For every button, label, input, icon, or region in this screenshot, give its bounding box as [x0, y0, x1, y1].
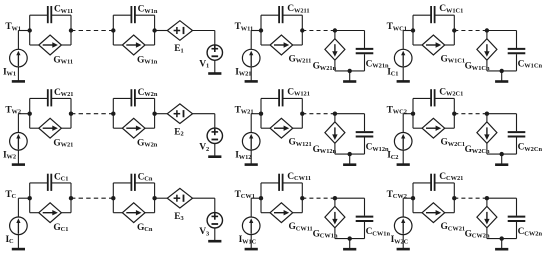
node: [28, 112, 32, 116]
controlled source GW1n: [122, 35, 145, 55]
label CW2Cn: [518, 143, 543, 153]
ground: [208, 144, 221, 157]
label GW11: [53, 55, 73, 65]
node TWC2 label: [387, 105, 407, 115]
controlled source GCW11: [270, 203, 293, 223]
label GCW11: [289, 222, 313, 232]
current source IW1: [10, 49, 28, 67]
node: [152, 28, 156, 32]
label IW12: [235, 151, 251, 161]
capacitor CC1: [48, 174, 52, 191]
wire: [113, 183, 154, 198]
wire: [302, 30, 335, 32]
wire: [334, 143, 336, 154]
wire: [261, 183, 302, 198]
label GW21: [53, 139, 73, 149]
controlled source GW11: [39, 35, 62, 55]
wire: [487, 31, 517, 49]
capacitor CCW2n: [508, 217, 526, 221]
node: [485, 196, 489, 200]
label CW12n: [366, 143, 389, 153]
node: [411, 28, 415, 32]
node: [411, 196, 415, 200]
wire: [403, 113, 413, 115]
capacitor CW121: [279, 89, 283, 106]
capacitor CW1n: [131, 6, 135, 23]
wire: [516, 222, 518, 239]
label CW2C1: [439, 87, 463, 97]
label CW121: [287, 87, 310, 97]
controlled source GCW21: [422, 203, 445, 223]
ground: [495, 154, 508, 165]
wire: [334, 228, 336, 239]
node: [411, 112, 415, 116]
controlled source GW1C1: [422, 35, 445, 55]
wire: [486, 31, 488, 39]
wire: [251, 113, 261, 115]
label GW211: [289, 54, 312, 64]
node: [300, 112, 304, 116]
wire: [413, 31, 454, 46]
wire: [113, 114, 154, 129]
label V3: [199, 227, 209, 237]
wire: [486, 114, 488, 122]
label CCW11: [287, 172, 311, 182]
wire: [30, 114, 71, 129]
wire: [261, 198, 302, 213]
ground: [343, 239, 356, 250]
label GW2C1: [441, 138, 466, 148]
wire: [334, 31, 336, 39]
label IC: [6, 235, 15, 245]
node: [111, 28, 115, 32]
node: [485, 112, 489, 116]
controlled source GW21: [39, 118, 62, 138]
label CW21: [54, 88, 73, 98]
node: [452, 112, 456, 116]
capacitor CCW11: [279, 174, 283, 191]
label GW121: [289, 138, 312, 148]
node: [28, 28, 32, 32]
ground: [12, 235, 25, 250]
controlled source GW1Cn: [477, 39, 497, 60]
node: [69, 28, 73, 32]
ground: [208, 60, 221, 73]
wire: [17, 198, 19, 217]
label IW1: [3, 67, 16, 77]
node: [348, 152, 352, 156]
wire: [18, 197, 29, 199]
wire: [302, 197, 335, 199]
wire: [516, 137, 518, 154]
wire: [17, 31, 19, 50]
wire: [402, 114, 404, 133]
label IW2: [3, 151, 16, 161]
controlled source GCW1n: [325, 206, 345, 227]
node: [500, 69, 504, 73]
controlled source GW12n: [325, 122, 345, 143]
node: [111, 112, 115, 116]
current source IW2C: [394, 217, 412, 235]
label GW2Cn: [465, 145, 490, 155]
voltage source V2: [207, 128, 222, 143]
wire: [334, 198, 336, 206]
wire: [71, 113, 113, 115]
label CW1Cn: [518, 60, 543, 70]
node: [500, 152, 504, 156]
label IC2: [387, 151, 398, 161]
label GCW1n: [313, 229, 338, 239]
node: [333, 28, 337, 32]
wire: [516, 54, 518, 71]
wire: [334, 60, 336, 71]
wire: [364, 137, 366, 154]
current source IW21: [242, 49, 260, 67]
wire: [71, 197, 113, 199]
controlled source GCW2n: [477, 206, 497, 227]
label GW1Cn: [465, 62, 490, 72]
wire: [335, 153, 365, 155]
wire: [30, 15, 71, 30]
ground: [245, 67, 258, 82]
wire: [413, 114, 454, 129]
wire: [413, 183, 454, 198]
wire: [261, 15, 302, 30]
label E1: [174, 44, 183, 54]
node: [452, 196, 456, 200]
label E2: [174, 127, 183, 137]
label V2: [199, 143, 209, 153]
label GW21n: [313, 62, 337, 72]
wire: [402, 31, 404, 50]
wire: [413, 98, 454, 113]
wire: [403, 30, 413, 32]
wire: [413, 15, 454, 30]
current source IW12: [242, 133, 260, 151]
label IC1: [387, 68, 398, 78]
node TW2 label: [5, 105, 21, 115]
label E3: [174, 212, 183, 222]
node: [69, 196, 73, 200]
wire: [193, 113, 215, 115]
wire: [193, 197, 215, 199]
label CW21n: [366, 60, 389, 70]
wire: [214, 31, 216, 45]
wire: [250, 31, 252, 50]
wire: [18, 113, 29, 115]
capacitor CCW21: [431, 174, 435, 191]
node TC label: [5, 190, 16, 200]
node: [111, 196, 115, 200]
controlled voltage source E1: [167, 21, 192, 41]
wire: [486, 143, 488, 154]
wire: [18, 30, 29, 32]
label CCW2n: [518, 227, 543, 237]
wire: [261, 31, 302, 46]
capacitor CW11: [48, 6, 52, 23]
controlled source GW2Cn: [477, 122, 497, 143]
capacitor CW1C1: [431, 6, 435, 23]
wire: [113, 198, 154, 213]
node TWC1 label: [387, 22, 407, 32]
capacitor CCn: [131, 174, 135, 191]
wire: [487, 114, 517, 132]
capacitor CW21: [48, 89, 52, 106]
wire: [155, 197, 168, 199]
ground: [12, 150, 25, 165]
capacitor CW21n: [356, 49, 374, 53]
node: [259, 196, 263, 200]
ground: [245, 150, 258, 165]
ground: [397, 67, 410, 82]
label CCW1n: [366, 227, 391, 237]
controlled source GW211: [270, 35, 293, 55]
wire: [30, 183, 71, 198]
wire: [250, 114, 252, 133]
label CW1n: [138, 5, 158, 15]
wire: [335, 198, 365, 216]
label CW1C1: [439, 4, 463, 14]
label GW1C1: [441, 54, 466, 64]
wire: [402, 198, 404, 217]
node: [348, 69, 352, 73]
wire: [113, 15, 154, 30]
wire: [250, 198, 252, 217]
wire: [403, 197, 413, 199]
label CCW21: [439, 172, 463, 182]
wire: [302, 113, 335, 115]
wire: [454, 30, 487, 32]
controlled voltage source E3: [167, 188, 192, 208]
ground: [343, 154, 356, 165]
node: [152, 196, 156, 200]
wire: [486, 198, 488, 206]
wire: [364, 54, 366, 71]
label IW2C: [391, 235, 409, 245]
wire: [155, 30, 168, 32]
wire: [193, 30, 215, 32]
node: [333, 196, 337, 200]
current source IW1C: [242, 217, 260, 235]
wire: [487, 70, 517, 72]
wire: [454, 113, 487, 115]
ground: [495, 239, 508, 250]
wire: [413, 198, 454, 213]
controlled source GC1: [39, 203, 62, 223]
wire: [335, 114, 365, 132]
wire: [335, 238, 365, 240]
node TCW1 label: [235, 190, 255, 200]
controlled source GW21n: [325, 39, 345, 60]
wire: [155, 113, 168, 115]
label CW11: [54, 5, 73, 15]
wire: [261, 98, 302, 113]
label IW21: [235, 68, 251, 78]
ground: [343, 71, 356, 82]
label GW12n: [313, 145, 337, 155]
capacitor CCW1n: [356, 217, 374, 221]
voltage source V1: [207, 45, 222, 60]
label GW2n: [137, 139, 158, 149]
capacitor CW211: [279, 6, 283, 23]
wire: [487, 198, 517, 216]
node: [152, 112, 156, 116]
label CC1: [54, 172, 68, 182]
label GC1: [53, 223, 68, 233]
node: [28, 196, 32, 200]
wire: [30, 31, 71, 46]
ground: [12, 67, 25, 82]
current source IC: [10, 217, 28, 235]
wire: [335, 31, 365, 49]
ground: [397, 235, 410, 250]
capacitor CW1Cn: [508, 49, 526, 53]
controlled voltage source E2: [167, 104, 192, 124]
node: [452, 28, 456, 32]
capacitor CW2n: [131, 89, 135, 106]
node: [348, 236, 352, 240]
wire: [334, 114, 336, 122]
current source IC2: [394, 133, 412, 151]
wire: [113, 31, 154, 46]
wire: [486, 228, 488, 239]
wire: [113, 98, 154, 113]
wire: [251, 30, 261, 32]
capacitor CW2Cn: [508, 132, 526, 136]
node TW11 label: [235, 22, 254, 32]
wire: [30, 98, 71, 113]
node: [500, 236, 504, 240]
current source IC1: [394, 49, 412, 67]
controlled source GCn: [122, 203, 145, 223]
label GCn: [137, 223, 153, 233]
label CW211: [287, 4, 309, 14]
label CW2n: [138, 88, 158, 98]
controlled source GW121: [270, 118, 293, 138]
controlled source GW2n: [122, 118, 145, 138]
label CCn: [138, 172, 153, 182]
ground: [397, 150, 410, 165]
node: [259, 112, 263, 116]
node TW21 label: [235, 105, 254, 115]
wire: [251, 197, 261, 199]
current source IW2: [10, 133, 28, 151]
ground: [245, 235, 258, 250]
node TCW2 label: [387, 190, 407, 200]
wire: [335, 70, 365, 72]
node: [300, 28, 304, 32]
ground: [495, 71, 508, 82]
label GCW2n: [465, 229, 490, 239]
node: [485, 28, 489, 32]
wire: [214, 198, 216, 212]
capacitor CW12n: [356, 132, 374, 136]
label V1: [199, 60, 209, 70]
label IW1C: [239, 235, 257, 245]
voltage source V3: [207, 213, 222, 228]
node: [259, 28, 263, 32]
wire: [17, 114, 19, 133]
wire: [364, 222, 366, 239]
node TW1 label: [5, 22, 21, 32]
label GW1n: [137, 55, 158, 65]
wire: [487, 238, 517, 240]
node: [333, 112, 337, 116]
node: [69, 112, 73, 116]
ground: [208, 228, 221, 241]
wire: [71, 30, 113, 32]
wire: [487, 153, 517, 155]
wire: [454, 197, 487, 199]
wire: [261, 114, 302, 129]
wire: [486, 60, 488, 71]
wire: [214, 114, 216, 128]
node: [300, 196, 304, 200]
label GCW21: [441, 222, 466, 232]
controlled source GW2C1: [422, 118, 445, 138]
wire: [30, 198, 71, 213]
capacitor CW2C1: [431, 89, 435, 106]
